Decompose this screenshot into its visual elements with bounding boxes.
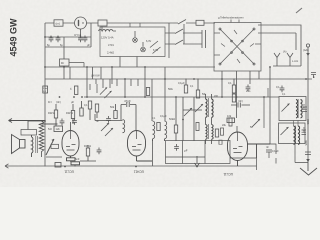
svg-text:(A): (A) — [283, 50, 287, 54]
svg-text:0,1: 0,1 — [228, 81, 232, 85]
svg-text:(nF): (nF) — [238, 99, 243, 103]
svg-text:5nF: 5nF — [75, 157, 80, 161]
svg-text:47pF: 47pF — [124, 99, 131, 103]
svg-text:0,1μF: 0,1μF — [272, 149, 279, 153]
svg-text:0,1μF: 0,1μF — [178, 81, 185, 85]
svg-text:0905: 0905 — [304, 140, 307, 146]
svg-text:4549 GW: 4549 GW — [9, 18, 19, 57]
svg-text:0,1: 0,1 — [84, 103, 88, 107]
svg-text:DW11: DW11 — [48, 111, 56, 115]
svg-text:Dr: Dr — [61, 61, 64, 65]
svg-text:(nF): (nF) — [56, 100, 61, 104]
svg-text:0,1: 0,1 — [276, 85, 280, 89]
svg-text:6,3V: 6,3V — [146, 40, 151, 43]
svg-text:Dr I: Dr I — [48, 101, 52, 104]
svg-text:UY11: UY11 — [74, 33, 82, 37]
svg-text:UCL11: UCL11 — [64, 170, 74, 174]
svg-text:0905: 0905 — [306, 119, 309, 125]
svg-text:UCH11: UCH11 — [134, 170, 144, 174]
svg-text:0,59: 0,59 — [302, 104, 306, 110]
svg-text:200: 200 — [214, 95, 219, 98]
svg-text:50k: 50k — [168, 87, 173, 91]
svg-text:50k: 50k — [110, 105, 115, 109]
svg-text:6,3V: 6,3V — [153, 49, 158, 52]
svg-text:g.Tellerkondensatoren: g.Tellerkondensatoren — [218, 16, 244, 20]
svg-text:μF: μF — [184, 149, 188, 153]
svg-text:10k: 10k — [227, 114, 232, 118]
svg-text:DW11: DW11 — [84, 144, 92, 148]
svg-text:5nF: 5nF — [48, 128, 53, 131]
svg-text:E: E — [313, 75, 315, 79]
svg-text:0,59: 0,59 — [302, 127, 306, 133]
svg-text:12k: 12k — [56, 127, 61, 131]
svg-text:0,1μF: 0,1μF — [160, 114, 167, 118]
svg-text:13m: 13m — [43, 88, 47, 90]
svg-text:50kΩ: 50kΩ — [169, 117, 175, 121]
svg-text:120V 0,4A: 120V 0,4A — [101, 36, 114, 40]
svg-text:L.Ant: L.Ant — [292, 59, 298, 63]
svg-text:DW11: DW11 — [66, 111, 74, 115]
svg-text:(Adr): (Adr) — [303, 48, 309, 52]
svg-text:LW KW: LW KW — [91, 74, 100, 78]
svg-text:2,4kΩ: 2,4kΩ — [107, 51, 114, 55]
svg-text:LT31: LT31 — [108, 43, 114, 47]
svg-text:25n: 25n — [246, 89, 251, 93]
svg-text:μF: μF — [71, 100, 74, 104]
svg-text:(m): (m) — [56, 22, 61, 26]
svg-text:UCL11: UCL11 — [223, 172, 233, 176]
